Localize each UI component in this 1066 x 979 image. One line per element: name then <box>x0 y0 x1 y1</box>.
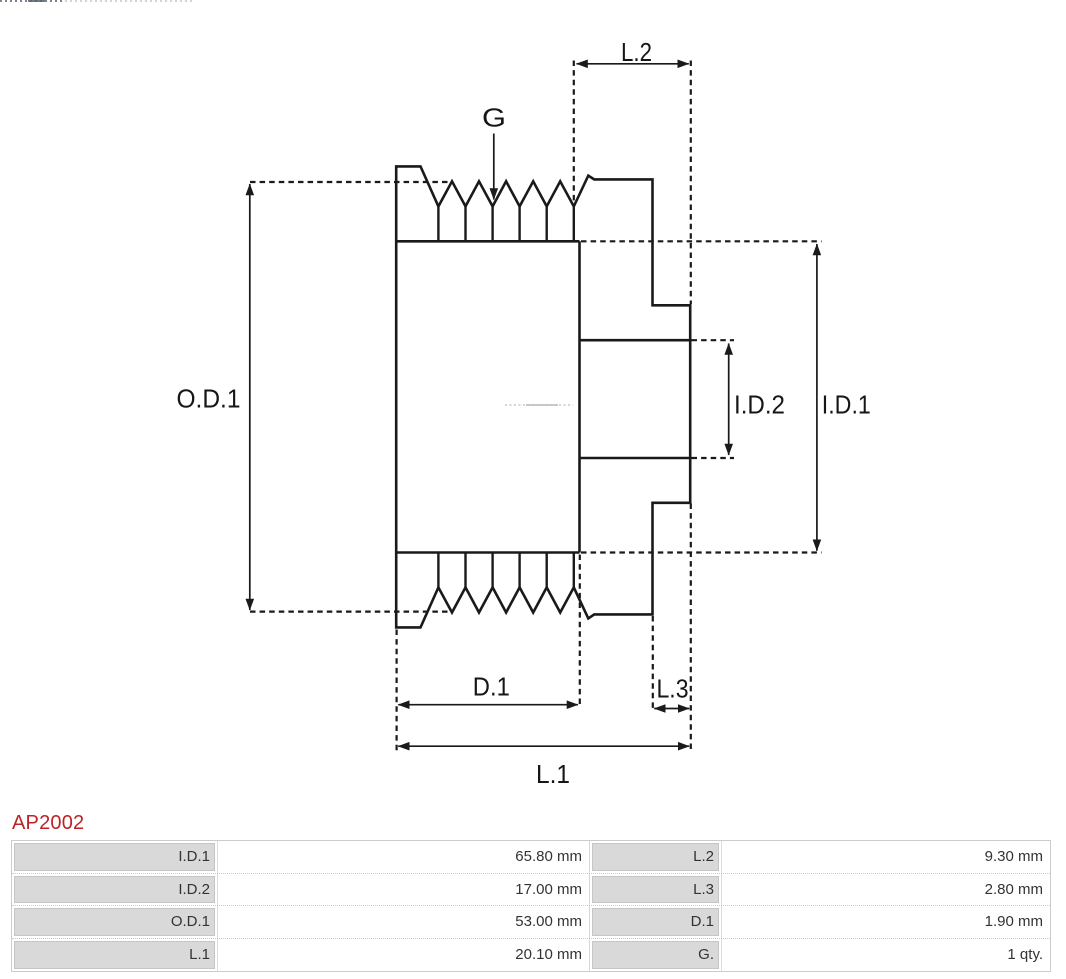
svg-text:L.3: L.3 <box>657 674 689 704</box>
svg-text:L.2: L.2 <box>621 37 652 67</box>
svg-text:G: G <box>482 102 506 132</box>
svg-text:O.D.1: O.D.1 <box>177 384 241 414</box>
svg-text:D.1: D.1 <box>473 672 510 702</box>
svg-text:L.1: L.1 <box>536 759 570 789</box>
svg-text:I.D.2: I.D.2 <box>734 390 785 420</box>
svg-text:I.D.1: I.D.1 <box>822 390 871 420</box>
